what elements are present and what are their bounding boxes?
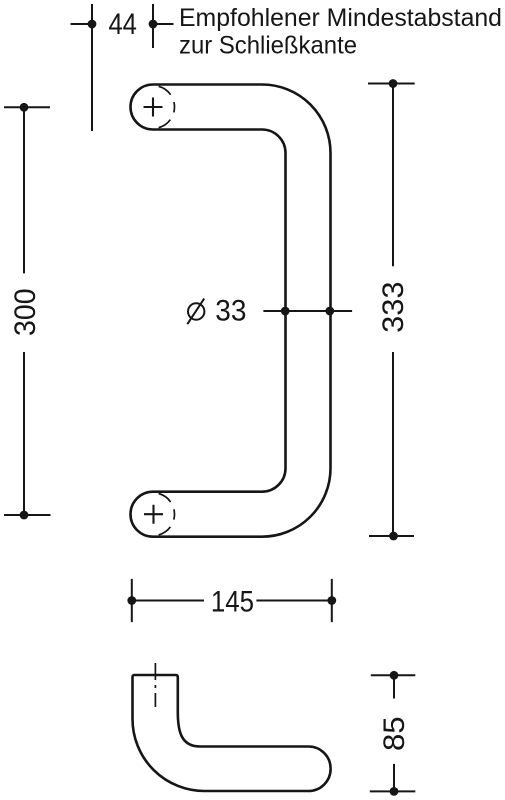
dim 44 dot right [149,20,158,29]
dim 145 dot right [327,596,336,605]
dim 300 dot top [20,103,29,112]
dim 145 tick left [131,579,133,622]
hidden hole dashed circle bottom [159,494,175,535]
dim 145 line right segment [256,600,331,602]
dim 333 dot bottom [389,532,398,541]
svg-text:85: 85 [378,716,411,751]
dim 44 extension line right [152,4,154,48]
dim 145 line left segment [132,600,204,602]
svg-text:Empfohlener Mindestabstand: Empfohlener Mindestabstand [179,4,502,32]
svg-text:300: 300 [9,288,42,336]
dim 85 tick top [371,674,416,676]
dim 300 line lower segment [23,352,25,515]
svg-text:33: 33 [215,295,246,328]
dim 85 line lower segment [393,764,395,792]
dim 300 line upper segment [23,107,25,273]
dim dia33 dot left [281,307,290,316]
dim 145 tick right [331,579,333,622]
dim dia33 label diameter symbol [188,303,204,319]
dim 333 tick bottom [369,535,414,537]
dim 44 tick left [71,23,93,25]
dim 300 tick bottom [4,514,51,516]
dim 85 dot bottom [390,787,399,796]
svg-text:44: 44 [108,8,137,41]
handle outline (front view) [131,85,331,537]
dim dia33 dot right [325,307,334,316]
center cross top [144,98,163,117]
dim 300 tick top [4,106,50,108]
dim 333 dot top [389,79,398,88]
dim dia33 line [263,310,352,312]
dim 333 tick top [368,83,415,85]
dim 44 dot left [88,20,97,29]
svg-text:145: 145 [211,586,254,619]
dim 333 line upper segment [392,84,394,267]
dim 333 line lower segment [392,352,394,536]
svg-text:zur Schließkante: zur Schließkante [179,32,357,60]
side view outline [133,675,331,791]
hidden hole dashed circle top [159,86,175,127]
side view centerline [154,663,156,707]
dim 44 tick right [153,23,174,25]
dim 85 tick bottom [370,790,416,792]
dim 85 dot top [390,671,399,680]
dim 145 dot left [127,596,136,605]
dim 85 line upper segment [393,675,395,698]
dim 300 dot bottom [20,511,29,520]
svg-text:333: 333 [377,281,410,333]
center cross bottom [144,505,163,524]
dim 44 extension line left [91,4,93,131]
